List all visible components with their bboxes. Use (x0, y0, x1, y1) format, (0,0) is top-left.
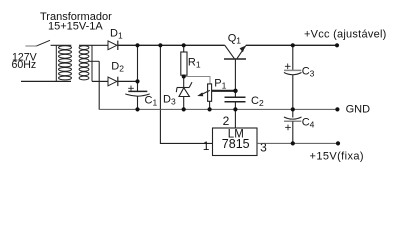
node R1 bottom / D3 / P1 (182, 75, 186, 79)
switch S1 lever (37, 40, 50, 46)
node D2 cathode junction (135, 79, 139, 83)
wire +Vcc rail down to C3 (292, 45, 294, 70)
node ground rail / D3 (182, 107, 186, 111)
label C1 plus sign (128, 86, 134, 92)
regulator U1 LM7815 box (213, 128, 258, 156)
capacitor C3 (284, 70, 302, 109)
wire Q1 emitter to +Vcc terminal (246, 44, 337, 46)
wire secondary bottom to D2 anode (92, 80, 108, 82)
ground rail (99, 108, 338, 110)
node Q1 base / P1 wiper / C2 (233, 89, 237, 93)
wire R1 node to P1 top (184, 77, 210, 84)
terminal +Vcc (335, 43, 339, 47)
node ground rail / C2 and regulator pin 2 (233, 107, 237, 111)
svg-text:3: 3 (260, 140, 267, 154)
resistor R1 (181, 52, 187, 75)
wire secondary top to D1 anode (79, 44, 108, 46)
wire ground rail to regulator pin 2 (234, 109, 236, 128)
capacitor C4 (284, 117, 302, 143)
zener diode D3 (176, 77, 192, 110)
node top rail / C1 branch (135, 43, 139, 47)
wire AC live stub (25, 45, 37, 47)
wire top rail down to regulator input (160, 45, 212, 143)
potentiometer P1 (197, 84, 211, 101)
wire P1 bottom to ground rail (209, 101, 211, 109)
terminal GND (335, 107, 339, 111)
transistor Q1 (224, 45, 246, 91)
svg-text:+Vcc (ajustável): +Vcc (ajustável) (304, 28, 387, 40)
svg-text:1: 1 (203, 139, 210, 153)
wire D1 cathode to top rail (118, 44, 225, 46)
transformer T1 primary winding (56, 45, 71, 81)
wire switch to primary top (51, 44, 72, 46)
wire top rail down to D2 junction (137, 45, 139, 81)
svg-text:GND: GND (346, 103, 371, 115)
svg-text:+15V(fixa): +15V(fixa) (310, 150, 364, 162)
node top rail / R1 branch (182, 43, 186, 47)
transformer T1 secondary winding (79, 45, 92, 81)
diode D2 (108, 77, 118, 86)
wire D2 cathode to junction (118, 80, 138, 82)
svg-text:2: 2 (223, 114, 230, 128)
node +Vcc rail / C3 branch (291, 43, 295, 47)
node ground rail / P1 (208, 107, 212, 111)
wire D2 junction down to C1 (137, 81, 139, 91)
wire regulator output to +15V terminal (257, 142, 338, 144)
node ground rail / C4 (291, 107, 295, 111)
wire AC neutral to primary bottom (21, 80, 71, 82)
node +15V rail / C4 (291, 141, 295, 145)
svg-text:7815: 7815 (222, 137, 250, 151)
wire top rail down to R1 (183, 45, 185, 52)
wire center tap horizontal (89, 60, 99, 62)
wire P1 wiper to Q1 base node (212, 90, 236, 92)
svg-text:60Hz: 60Hz (12, 59, 37, 71)
terminal +15V (336, 141, 340, 145)
capacitor C2 (225, 91, 246, 110)
node top rail / regulator input branch (158, 43, 162, 47)
label C4 plus sign (285, 125, 291, 131)
wire R1 bottom to node (183, 75, 185, 78)
wire ground rail down to C4 (292, 109, 294, 117)
capacitor C1 (125, 91, 149, 109)
wire center tap down to ground rail (98, 61, 100, 109)
junction dots (135, 43, 340, 145)
svg-text:15+15V-1A: 15+15V-1A (48, 21, 103, 33)
label C3 plus sign (285, 64, 291, 70)
node ground rail / C1 (135, 107, 139, 111)
diode D1 (108, 41, 118, 50)
